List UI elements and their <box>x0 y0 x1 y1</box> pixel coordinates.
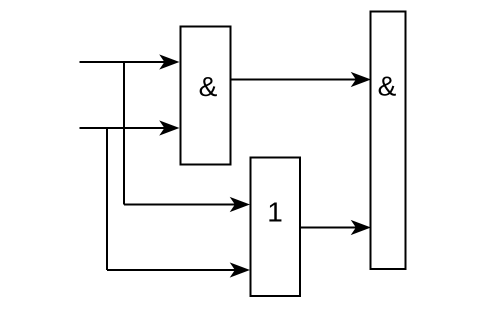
AND gate U3 (box) <box>371 12 406 270</box>
wire input A horizontal segment <box>80 61 166 63</box>
OR gate U2 (box) <box>251 158 301 297</box>
wire U1 output to U3 <box>231 79 358 81</box>
wire input B horizontal segment <box>80 127 166 129</box>
node B junction vertical drop <box>106 128 108 270</box>
arrowhead input A to U1 <box>161 55 179 68</box>
arrowhead node A to U2 <box>231 198 249 211</box>
arrowhead node B to U2 <box>231 263 249 276</box>
node A junction vertical drop <box>123 62 125 205</box>
AND gate U1 (box) <box>181 27 231 165</box>
wire node A to OR gate horizontal segment <box>124 204 235 206</box>
svg-text:1: 1 <box>267 197 283 228</box>
arrowhead input B to U1 <box>161 121 179 134</box>
wire U2 output to U3 <box>300 227 357 229</box>
svg-text:&: & <box>378 71 397 102</box>
arrowhead U1 output to U3 <box>352 73 370 86</box>
svg-text:&: & <box>199 71 218 102</box>
arrowhead U2 output to U3 <box>352 221 370 234</box>
wire node B to OR gate horizontal segment <box>107 269 235 271</box>
